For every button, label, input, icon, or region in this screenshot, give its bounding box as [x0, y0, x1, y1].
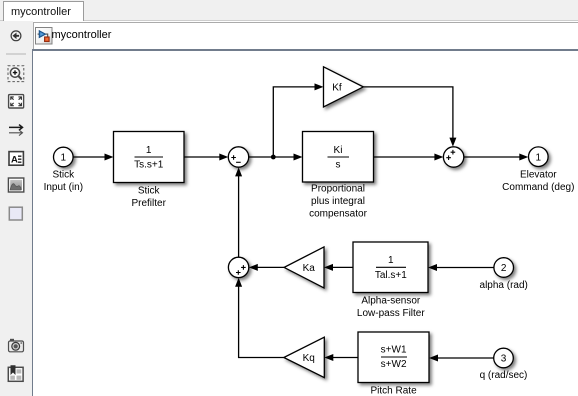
gain Ka (triangle, points left)	[284, 247, 324, 288]
svg-text:compensator: compensator	[309, 209, 367, 220]
svg-text:Input (in): Input (in)	[44, 182, 83, 193]
svg-text:Pitch Rate: Pitch Rate	[371, 386, 418, 396]
output port 1 (Elevator Command)	[502, 147, 574, 193]
svg-text:s+W1: s+W1	[381, 345, 407, 356]
svg-text:2: 2	[501, 263, 507, 274]
svg-text:Tal.s+1: Tal.s+1	[375, 270, 407, 281]
svg-text:1: 1	[61, 153, 67, 164]
svg-text:alpha (rad): alpha (rad)	[480, 280, 528, 291]
wire: Ka to S3	[249, 264, 284, 271]
svg-text:3: 3	[501, 354, 507, 365]
svg-text:Proportional: Proportional	[311, 184, 365, 195]
wire: Ki/s to sum S2	[374, 154, 444, 161]
svg-text:Elevator: Elevator	[520, 169, 557, 180]
svg-text:Kf: Kf	[332, 82, 342, 93]
svg-text:Stick: Stick	[52, 170, 75, 181]
wire: branch up to gain Kf	[273, 83, 323, 157]
svg-text:Ki: Ki	[334, 145, 343, 156]
wire: Pitch Rate block to Kq	[324, 354, 358, 361]
wire: Stick Prefilter to sum S1	[184, 154, 228, 161]
wire: input 3 to Pitch Rate block	[429, 355, 494, 362]
wire: input 2 to Alpha block	[428, 264, 494, 271]
signal arrows tool	[9, 125, 23, 136]
image tool	[8, 178, 23, 192]
svg-text:plus integral: plus integral	[311, 196, 365, 207]
annotation tool (A with lines)	[9, 152, 23, 166]
wire: S3 up to S1 (feedback)	[235, 167, 242, 257]
wire: Kf to sum S2 (right, then down)	[363, 87, 456, 147]
svg-text:Kq: Kq	[303, 353, 315, 364]
breadcrumb bar	[33, 22, 578, 50]
sum junction S2 (+ left, + top)	[443, 147, 463, 167]
input port 2 (alpha)	[480, 258, 528, 291]
svg-text:Stick: Stick	[138, 185, 161, 196]
svg-text:Command (deg): Command (deg)	[502, 182, 574, 193]
block Ki/s (proportional plus integral compensator)	[303, 132, 374, 220]
svg-text:q (rad/sec): q (rad/sec)	[480, 370, 528, 381]
zoom tool (selected, dashed)	[8, 66, 24, 82]
back button	[11, 31, 21, 41]
tab bar	[0, 0, 578, 21]
block Pitch Rate lead filter ((s+W1)/(s+W2))	[358, 332, 429, 396]
input port 3 (q)	[480, 348, 528, 381]
gain Kf (triangle)	[324, 67, 364, 107]
sum junction S1 (+ left, - bottom)	[228, 147, 248, 167]
fit-to-view tool	[9, 95, 24, 108]
simulink model icon	[35, 27, 53, 45]
gain Kq (triangle, points left)	[284, 337, 325, 377]
svg-text:Ka: Ka	[303, 263, 316, 274]
svg-text:1: 1	[146, 145, 152, 156]
wire: Kq left then up to S3	[235, 278, 284, 358]
svg-text:Low-pass Filter: Low-pass Filter	[357, 308, 425, 319]
block Stick Prefilter (transfer fcn 1/(Ts.s+1))	[114, 132, 185, 209]
svg-text:Prefilter: Prefilter	[131, 198, 166, 209]
left toolbar strip	[0, 21, 33, 396]
svg-text:A: A	[11, 155, 18, 166]
svg-text:Ts.s+1: Ts.s+1	[134, 160, 164, 171]
separator	[6, 53, 26, 55]
block Alpha-sensor Low-pass Filter (1/(Tal.s+1))	[353, 242, 428, 319]
svg-text:1: 1	[536, 152, 542, 163]
palette / legend icon	[8, 365, 23, 381]
svg-text:Alpha-sensor: Alpha-sensor	[361, 296, 421, 307]
svg-text:s: s	[336, 160, 341, 171]
wire: S2 to output port	[464, 154, 529, 161]
camera (screenshot) icon	[9, 339, 24, 352]
input port 1 (Stick Input)	[44, 147, 83, 193]
wire: S1 to Ki/s block with branch junction	[249, 154, 303, 161]
area box tool	[9, 207, 22, 220]
svg-text:1: 1	[388, 255, 394, 266]
tab mycontroller	[3, 1, 84, 21]
svg-text:s+W2: s+W2	[381, 359, 407, 370]
wire: Alpha block to Ka	[324, 264, 353, 271]
junction node dot	[271, 155, 276, 160]
wire: input 1 to Stick Prefilter	[73, 154, 113, 161]
sum junction S3 (+ right, + bottom)	[228, 257, 248, 277]
